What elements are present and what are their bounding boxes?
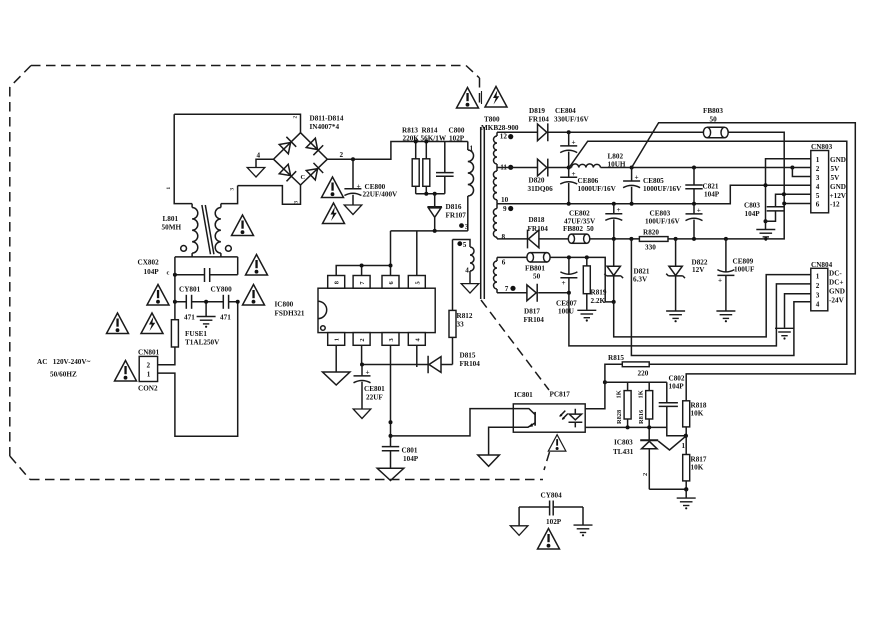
svg-text:R813: R813 bbox=[402, 126, 418, 134]
warning triangle fuse left bbox=[107, 313, 129, 334]
svg-text:PC817: PC817 bbox=[550, 391, 571, 399]
resistor R813 bbox=[402, 126, 419, 194]
wire GND row pin10 bbox=[497, 185, 811, 203]
capacitor C801 bbox=[377, 446, 419, 480]
svg-text:FR104: FR104 bbox=[460, 360, 481, 368]
capacitor C800 bbox=[436, 126, 465, 194]
diode D817 bbox=[524, 284, 545, 324]
wire CN801 pin2 to fuse bbox=[158, 347, 175, 365]
svg-text:330UF/16V: 330UF/16V bbox=[554, 116, 590, 124]
svg-text:6: 6 bbox=[816, 201, 820, 209]
svg-text:1: 1 bbox=[147, 370, 151, 378]
resistor R812 bbox=[449, 240, 473, 365]
wire CX row bbox=[175, 275, 238, 302]
svg-text:2: 2 bbox=[147, 361, 151, 369]
inductor L801 common mode choke bbox=[162, 114, 238, 257]
svg-text:104P: 104P bbox=[745, 210, 761, 218]
svg-text:104P: 104P bbox=[144, 268, 160, 276]
svg-text:MKB28-900: MKB28-900 bbox=[481, 124, 519, 132]
wire CN803 pin2 pin3 bbox=[792, 168, 810, 177]
svg-text:D818: D818 bbox=[529, 216, 545, 224]
wire -12 row pin8 bbox=[497, 204, 811, 239]
svg-text:FSDH321: FSDH321 bbox=[275, 310, 305, 318]
svg-text:L802: L802 bbox=[608, 152, 624, 160]
svg-text:3: 3 bbox=[294, 201, 300, 204]
svg-text:4: 4 bbox=[816, 301, 820, 309]
resistor R817 bbox=[683, 436, 707, 490]
svg-text:7: 7 bbox=[505, 285, 509, 293]
svg-text:+: + bbox=[572, 138, 576, 146]
svg-text:FUSE1: FUSE1 bbox=[185, 330, 207, 338]
svg-text:R814: R814 bbox=[422, 126, 438, 134]
pin 3 IC800 bbox=[382, 333, 399, 447]
svg-text:+: + bbox=[366, 369, 370, 377]
svg-text:CE805: CE805 bbox=[643, 177, 664, 185]
wire TL431 anode row bbox=[649, 488, 686, 490]
svg-text:D820: D820 bbox=[529, 177, 545, 185]
svg-text:10UH: 10UH bbox=[608, 160, 626, 168]
svg-text:+: + bbox=[562, 279, 566, 287]
svg-text:C803: C803 bbox=[744, 202, 760, 210]
svg-text:GND: GND bbox=[829, 288, 845, 296]
transformer T800 aux winding bbox=[453, 240, 479, 294]
svg-text:+: + bbox=[617, 206, 621, 214]
node clamp bus dots bbox=[414, 140, 418, 144]
svg-text:R816: R816 bbox=[638, 409, 645, 424]
resistor R828 bbox=[616, 382, 632, 427]
warning triangle L801 right 2 bbox=[246, 255, 268, 276]
connector CN801 bbox=[138, 349, 160, 393]
svg-text:+12V: +12V bbox=[830, 192, 847, 200]
svg-text:471: 471 bbox=[184, 313, 195, 321]
svg-text:4: 4 bbox=[816, 183, 820, 191]
svg-text:TL431: TL431 bbox=[613, 448, 634, 456]
svg-text:CY804: CY804 bbox=[541, 492, 563, 500]
svg-text:D816: D816 bbox=[446, 203, 462, 211]
wire bridge node 2 to clamp bus bbox=[327, 142, 468, 160]
wire pin7 row bbox=[497, 292, 569, 294]
node -12 row dots bbox=[612, 237, 616, 241]
svg-text:5: 5 bbox=[463, 241, 467, 249]
node pin3 net dots bbox=[389, 420, 393, 424]
warning triangle fuse left upper bbox=[147, 285, 169, 306]
node R815 feed bbox=[603, 380, 607, 384]
svg-text:CN804: CN804 bbox=[811, 261, 833, 269]
pin 2 IC800 bbox=[353, 333, 370, 365]
svg-text:3: 3 bbox=[230, 188, 236, 191]
svg-text:T1AL250V: T1AL250V bbox=[185, 339, 220, 347]
svg-text:22UF/400V: 22UF/400V bbox=[363, 191, 399, 199]
svg-text:6: 6 bbox=[502, 259, 506, 267]
transformer T800 secondary winding 6-7 bbox=[494, 257, 516, 293]
wire diagonal B to R818 line bbox=[632, 123, 856, 401]
svg-text:c: c bbox=[167, 270, 170, 277]
svg-text:CE802: CE802 bbox=[569, 209, 590, 217]
svg-text:CON2: CON2 bbox=[138, 385, 158, 393]
optocoupler IC801 PC817 bbox=[513, 391, 585, 433]
svg-text:CE801: CE801 bbox=[364, 385, 385, 393]
capacitor CX802 bbox=[138, 259, 210, 283]
wire pin6 row FB801 bbox=[497, 257, 614, 302]
svg-text:2.2K: 2.2K bbox=[591, 297, 606, 305]
wire drain row bbox=[391, 230, 468, 232]
svg-text:1: 1 bbox=[470, 145, 474, 153]
svg-text:1K: 1K bbox=[638, 390, 645, 398]
node CY row junctions bbox=[173, 300, 177, 304]
svg-text:4: 4 bbox=[257, 152, 261, 160]
svg-text:R819: R819 bbox=[591, 289, 607, 297]
node D819 cathode bbox=[567, 130, 571, 134]
svg-text:C801: C801 bbox=[402, 446, 418, 454]
wire secondary row pin11 5V rail bbox=[497, 167, 792, 169]
warning triangle CN801 left bbox=[115, 361, 137, 382]
text AC input bbox=[37, 358, 91, 379]
wire secondary row pin12 bbox=[497, 132, 784, 203]
isolation dashed border bbox=[10, 66, 550, 480]
warning triangle PC817 below bbox=[548, 435, 566, 451]
svg-text:471: 471 bbox=[220, 313, 231, 321]
shunt regulator IC803 TL431 bbox=[613, 436, 686, 489]
svg-text:10: 10 bbox=[501, 196, 509, 204]
svg-text:+: + bbox=[572, 170, 576, 178]
capacitor CE803 bbox=[645, 204, 703, 239]
svg-text:FR104: FR104 bbox=[529, 116, 550, 124]
svg-text:8: 8 bbox=[502, 233, 506, 241]
diode D816 bbox=[427, 194, 466, 231]
svg-text:1000UF/16V: 1000UF/16V bbox=[578, 185, 617, 193]
svg-text:D821: D821 bbox=[634, 267, 650, 275]
fuse FUSE1 bbox=[171, 302, 220, 347]
capacitor CE800 bbox=[344, 159, 398, 214]
svg-text:R815: R815 bbox=[608, 354, 624, 362]
svg-text:CE807: CE807 bbox=[556, 299, 577, 307]
svg-text:-12: -12 bbox=[830, 201, 840, 209]
node 2 junction bbox=[351, 157, 355, 161]
LED opto bbox=[559, 409, 582, 428]
svg-text:1: 1 bbox=[816, 156, 820, 164]
capacitor CY800 bbox=[211, 286, 233, 322]
svg-text:C821: C821 bbox=[703, 183, 719, 191]
inductor L802 bbox=[572, 152, 626, 168]
transformer T800 bbox=[459, 116, 519, 300]
svg-text:CY801: CY801 bbox=[179, 286, 201, 294]
transformer T800 secondary winding 9-8 bbox=[493, 204, 513, 241]
wire AC bus top bbox=[174, 114, 300, 133]
svg-text:R820: R820 bbox=[643, 228, 659, 236]
connector CN803 bbox=[811, 143, 847, 213]
svg-text:R812: R812 bbox=[457, 312, 473, 320]
warning triangle T800 top bbox=[457, 88, 479, 109]
svg-text:IN4007*4: IN4007*4 bbox=[310, 123, 340, 131]
wire CN801 pin1 loop to CY800 node bbox=[158, 302, 238, 436]
svg-text:2: 2 bbox=[293, 116, 299, 119]
svg-text:R817: R817 bbox=[691, 456, 707, 464]
node pin11 rail dots bbox=[567, 166, 571, 170]
svg-text:104P: 104P bbox=[403, 455, 419, 463]
svg-text:12: 12 bbox=[500, 133, 508, 141]
wire bridge node 4 bbox=[247, 152, 273, 178]
svg-text:C800: C800 bbox=[449, 126, 465, 134]
capacitor CY801 bbox=[179, 286, 201, 322]
ferrite bead FB801 bbox=[525, 253, 550, 281]
capacitor CE801 bbox=[353, 365, 385, 419]
svg-text:8: 8 bbox=[334, 281, 341, 284]
warning triangle CE800 left bbox=[322, 177, 344, 198]
resistor R815 bbox=[605, 354, 649, 382]
svg-text:3: 3 bbox=[388, 338, 395, 341]
warning flash T800 top bbox=[485, 87, 507, 108]
svg-text:CE809: CE809 bbox=[733, 257, 754, 265]
wire LED cathode row bbox=[569, 426, 667, 428]
svg-text:CE804: CE804 bbox=[555, 107, 576, 115]
wire pin3 to opto transistor bbox=[391, 409, 514, 436]
svg-text:+: + bbox=[357, 182, 361, 190]
svg-text:-24V: -24V bbox=[829, 297, 845, 305]
svg-text:31DQ06: 31DQ06 bbox=[528, 185, 554, 193]
wire CN804 pin2 line bbox=[569, 284, 811, 346]
svg-text:2: 2 bbox=[816, 282, 820, 290]
svg-text:FR107: FR107 bbox=[446, 212, 467, 220]
wire CN804 pin1 line bbox=[614, 275, 811, 337]
svg-text:L801: L801 bbox=[163, 215, 179, 223]
svg-text:102P: 102P bbox=[546, 518, 562, 526]
node pin7 junction bbox=[567, 291, 571, 295]
wire CN803 pin1 gnd vertical bbox=[766, 159, 811, 229]
svg-text:FB803: FB803 bbox=[703, 107, 723, 115]
capacitor C802 bbox=[659, 374, 686, 436]
diode D818 bbox=[528, 216, 549, 248]
svg-text:104P: 104P bbox=[704, 191, 720, 199]
capacitor CE804 bbox=[554, 107, 590, 168]
diode D820 bbox=[528, 159, 554, 193]
svg-text:D819: D819 bbox=[529, 107, 545, 115]
capacitor C803 bbox=[744, 202, 784, 222]
resistor R819 bbox=[577, 257, 607, 321]
svg-text:R818: R818 bbox=[691, 402, 707, 410]
wire CY row bbox=[175, 301, 238, 303]
connector CN804 bbox=[811, 261, 845, 311]
svg-text:50MH: 50MH bbox=[162, 224, 182, 232]
node CX left bbox=[173, 273, 177, 277]
svg-text:50/60HZ: 50/60HZ bbox=[50, 371, 77, 379]
svg-text:104P: 104P bbox=[669, 382, 685, 390]
bridge rectifier D811-D814 bbox=[274, 115, 344, 186]
pin 8 IC800 bbox=[328, 266, 391, 289]
svg-text:1000UF/16V: 1000UF/16V bbox=[643, 185, 682, 193]
op-amp IC800 FSDH321 body bbox=[275, 288, 436, 332]
svg-text:CX802: CX802 bbox=[138, 259, 160, 267]
resistor R818 bbox=[683, 401, 707, 436]
wire CN803 pin5 bbox=[776, 194, 811, 206]
svg-text:1K: 1K bbox=[616, 390, 623, 398]
svg-text:6.3V: 6.3V bbox=[633, 275, 648, 283]
capacitor CY804 bbox=[510, 492, 592, 537]
svg-text:1: 1 bbox=[166, 187, 172, 190]
ground earth CY mid bbox=[197, 302, 216, 328]
pin 7 IC800 bbox=[353, 264, 370, 289]
svg-text:CY800: CY800 bbox=[211, 286, 233, 294]
ground earth TL431 bbox=[677, 489, 696, 509]
svg-text:IC803: IC803 bbox=[614, 439, 633, 447]
svg-text:10K: 10K bbox=[691, 410, 704, 418]
capacitor CE807 bbox=[556, 257, 577, 315]
svg-text:GND: GND bbox=[830, 156, 846, 164]
svg-text:50: 50 bbox=[587, 225, 595, 233]
svg-text:DC-: DC- bbox=[829, 270, 842, 278]
svg-text:3: 3 bbox=[816, 291, 820, 299]
svg-text:C: C bbox=[301, 174, 306, 181]
svg-text:1: 1 bbox=[816, 273, 820, 281]
svg-text:FR104: FR104 bbox=[528, 225, 549, 233]
wire opto emitter ground bbox=[478, 427, 514, 466]
svg-text:12V: 12V bbox=[692, 266, 705, 274]
svg-text:100U: 100U bbox=[558, 308, 575, 316]
wire feedback top rail bbox=[575, 382, 667, 409]
wire clamp bottom row bbox=[416, 193, 445, 195]
node Vcc junction bbox=[360, 363, 364, 367]
wire CN804 pin3 ground bbox=[775, 294, 811, 340]
capacitor CE802 bbox=[564, 204, 622, 239]
svg-text:3: 3 bbox=[465, 223, 469, 231]
svg-text:D815: D815 bbox=[460, 352, 476, 360]
svg-text:100UF: 100UF bbox=[734, 265, 755, 273]
capacitor CE809 bbox=[716, 239, 755, 322]
svg-text:AC 120V-240V~: AC 120V-240V~ bbox=[37, 358, 91, 366]
svg-text:22UF: 22UF bbox=[366, 393, 383, 401]
svg-text:GND: GND bbox=[830, 183, 846, 191]
svg-text:47UF/35V: 47UF/35V bbox=[564, 217, 596, 225]
svg-text:102P: 102P bbox=[449, 134, 465, 142]
ground earth C803 bbox=[756, 230, 775, 241]
separator mark T800 top bbox=[481, 91, 483, 104]
svg-text:3: 3 bbox=[816, 174, 820, 182]
wire CN804 pin4 line bbox=[631, 239, 810, 356]
warning triangle CY804 below bbox=[538, 529, 560, 550]
svg-text:CE803: CE803 bbox=[650, 209, 671, 217]
svg-text:9: 9 bbox=[503, 205, 507, 213]
svg-text:1: 1 bbox=[682, 442, 686, 450]
svg-text:DC+: DC+ bbox=[829, 279, 843, 287]
capacitor C821 bbox=[685, 168, 719, 204]
svg-text:2: 2 bbox=[642, 473, 649, 476]
svg-text:+: + bbox=[697, 206, 701, 214]
resistor R814 bbox=[421, 126, 447, 194]
svg-text:R828: R828 bbox=[616, 410, 623, 424]
svg-text:CN803: CN803 bbox=[811, 143, 833, 151]
svg-text:T800: T800 bbox=[484, 116, 500, 124]
svg-text:2: 2 bbox=[359, 338, 366, 341]
pin 6 IC800 bbox=[382, 231, 399, 288]
ferrite bead FB803 bbox=[703, 107, 728, 138]
warning flash fuse left bbox=[141, 313, 163, 334]
svg-text:5: 5 bbox=[816, 192, 820, 200]
capacitor CE806 bbox=[560, 168, 616, 204]
pin 5 IC800 bbox=[408, 231, 425, 288]
wire diagonal A to R815 line bbox=[569, 141, 847, 364]
svg-text:FB802: FB802 bbox=[563, 225, 583, 233]
svg-text:+: + bbox=[635, 174, 639, 182]
svg-text:C802: C802 bbox=[669, 374, 685, 382]
ferrite bead FB802 bbox=[563, 225, 594, 243]
resistor R820 bbox=[639, 228, 668, 251]
svg-text:CE806: CE806 bbox=[578, 177, 599, 185]
svg-text:5: 5 bbox=[414, 281, 421, 284]
svg-text:FB801: FB801 bbox=[525, 265, 545, 273]
warning flash CE800 left bbox=[323, 203, 345, 224]
svg-text:1: 1 bbox=[334, 338, 341, 341]
resistor R816 bbox=[638, 382, 653, 440]
svg-text:10K: 10K bbox=[691, 464, 704, 472]
svg-text:D817: D817 bbox=[524, 308, 540, 316]
svg-text:D811-D814: D811-D814 bbox=[310, 115, 344, 123]
svg-text:2: 2 bbox=[816, 165, 820, 173]
svg-text:330: 330 bbox=[645, 244, 656, 252]
wire bridge bottom zigzag bbox=[238, 185, 301, 204]
wire L801 bottom rail bbox=[175, 257, 238, 275]
diode D819 bbox=[529, 107, 550, 141]
svg-text:220: 220 bbox=[638, 370, 649, 378]
node TL431 ref bbox=[684, 434, 688, 438]
svg-text:IC801: IC801 bbox=[514, 391, 533, 399]
svg-text:CN801: CN801 bbox=[138, 349, 160, 357]
svg-text:FR104: FR104 bbox=[524, 316, 545, 324]
warning triangle L801 right 3 bbox=[243, 285, 265, 306]
zener D821 bbox=[604, 239, 650, 302]
svg-text:IC800: IC800 bbox=[275, 301, 294, 309]
svg-text:2: 2 bbox=[340, 151, 344, 159]
svg-text:33: 33 bbox=[457, 321, 465, 329]
svg-text:50: 50 bbox=[533, 273, 541, 281]
pin 1 IC800 bbox=[323, 333, 350, 385]
transistor Q opto bbox=[513, 409, 535, 428]
svg-text:5V: 5V bbox=[831, 174, 841, 182]
warning triangle L801 right 1 bbox=[232, 215, 254, 236]
transformer T800 secondary winding 12-11 bbox=[493, 132, 513, 204]
svg-text:100UF/16V: 100UF/16V bbox=[645, 217, 681, 225]
zener D822 bbox=[666, 239, 708, 322]
svg-text:+: + bbox=[718, 277, 722, 285]
svg-text:4: 4 bbox=[465, 267, 469, 275]
pin 4 IC800 bbox=[408, 333, 425, 367]
capacitor CE805 bbox=[623, 168, 682, 204]
diode D815 bbox=[362, 352, 480, 374]
svg-text:5V: 5V bbox=[831, 165, 841, 173]
